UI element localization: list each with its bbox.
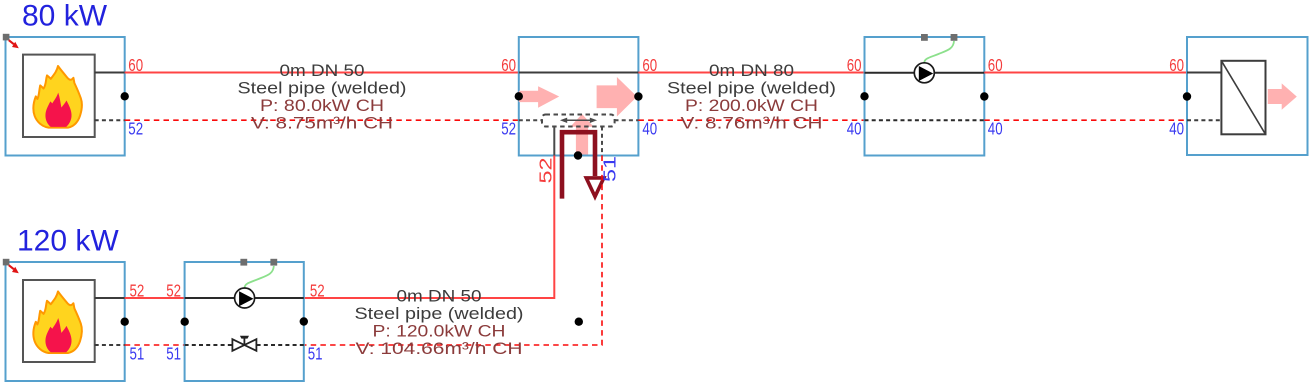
pump P1 handle square 2 (951, 34, 958, 41)
boiler B1 supply stub (95, 72, 125, 74)
boiler B2 corner arrow (9, 265, 19, 273)
node dot pump P2 right (300, 317, 308, 325)
pump P2 box (185, 262, 304, 381)
pipe run3 return wire (984, 119, 1187, 121)
consumer box (1187, 37, 1308, 155)
svg-text:V: 104.66m³/h CH: V: 104.66m³/h CH (356, 339, 523, 358)
boiler B2 supply stub (95, 297, 125, 299)
hydraulic separator box (519, 37, 639, 156)
pump P1 control curve (924, 41, 954, 63)
pump P1 handle square 1 (921, 34, 928, 41)
node dot separator left (515, 92, 523, 100)
boiler B2 flame outer (33, 291, 82, 353)
svg-text:51: 51 (308, 343, 323, 363)
svg-text:52: 52 (128, 118, 143, 138)
pipe seg B2-P2 return wire (125, 344, 185, 346)
pipe run1 supply wire (125, 72, 519, 74)
maroon flow direction arrow (562, 132, 604, 198)
svg-text:0m DN 50: 0m DN 50 (280, 61, 365, 80)
pump P1 rotor triangle (919, 66, 933, 81)
pump P1 circle (914, 63, 934, 83)
node dot pump P1 left (860, 92, 868, 100)
heat exchanger body (1221, 61, 1265, 135)
svg-text:V: 8.76m³/h CH: V: 8.76m³/h CH (681, 114, 823, 133)
pump P2 handle square 1 (240, 259, 247, 266)
pipe run4 text block (355, 287, 524, 359)
consumer flow arrow (1268, 83, 1297, 109)
svg-text:51: 51 (600, 156, 620, 182)
node dot boiler B2 outlet (121, 318, 129, 326)
boiler B2 return stub (95, 344, 125, 346)
valve V1 stem (243, 338, 245, 345)
svg-text:52: 52 (535, 158, 555, 184)
flow arrow big out (597, 77, 637, 117)
svg-text:52: 52 (310, 281, 325, 301)
svg-text:51: 51 (166, 343, 181, 363)
pipe run2 text block (667, 61, 836, 133)
consumer supply stub (1187, 72, 1221, 74)
boiler B1 flame outer (33, 66, 82, 128)
separator return wire internal left (519, 119, 542, 121)
pipe seg B2-P2 supply wire (125, 297, 185, 299)
svg-text:60: 60 (128, 55, 143, 75)
svg-text:40: 40 (847, 118, 862, 138)
flow arrow small in (519, 86, 559, 108)
svg-text:52: 52 (166, 281, 181, 301)
node dot pump P2 left (181, 318, 189, 326)
boiler B2 corner handle (3, 259, 10, 266)
svg-text:52: 52 (130, 281, 145, 301)
svg-text:120 kW: 120 kW (17, 225, 119, 258)
pump P2 return wire internal (185, 344, 304, 346)
riser return wire (304, 156, 602, 346)
pipe run2 return wire (638, 119, 864, 121)
svg-text:Steel pipe (welded): Steel pipe (welded) (238, 79, 407, 98)
svg-text:0m DN 80: 0m DN 80 (709, 61, 794, 80)
svg-text:60: 60 (988, 55, 1003, 75)
header arrow right head (590, 118, 597, 123)
pump P2 control curve (245, 266, 274, 288)
svg-text:52: 52 (501, 118, 516, 138)
node dot consumer left (1183, 92, 1191, 100)
node dot run4 mid (575, 318, 583, 326)
separator header symbol (542, 115, 615, 127)
svg-text:Steel pipe (welded): Steel pipe (welded) (667, 79, 836, 98)
pipe run1 return wire (125, 119, 519, 121)
boiler B2 body (23, 280, 95, 362)
separator bottom supply stub (553, 127, 555, 156)
pump P2 supply wire internal (185, 297, 304, 299)
svg-text:V: 8.75m³/h CH: V: 8.75m³/h CH (251, 114, 393, 133)
svg-text:40: 40 (1169, 118, 1184, 138)
svg-text:P: 120.0kW CH: P: 120.0kW CH (373, 322, 506, 341)
svg-text:60: 60 (501, 55, 516, 75)
consumer return stub (1187, 119, 1221, 121)
pump P2 rotor triangle (239, 291, 253, 306)
svg-text:P: 80.0kW CH: P: 80.0kW CH (260, 96, 384, 115)
boiler B1 flame inner (45, 93, 71, 127)
flow arrow up (570, 114, 593, 155)
pump P2 handle square 2 (270, 259, 277, 266)
valve V1 body (232, 339, 256, 351)
node dot separator right (634, 92, 642, 100)
boiler B1 corner arrow (9, 40, 19, 48)
pipe run1 text block (238, 61, 407, 133)
separator return wire internal right (615, 119, 639, 121)
valve V1 handle (240, 336, 249, 339)
boiler B2 flame inner (45, 318, 71, 352)
svg-text:40: 40 (642, 118, 657, 138)
boiler B1 body (23, 55, 95, 137)
pipe run2 supply wire (638, 72, 864, 74)
svg-text:0m DN 50: 0m DN 50 (397, 287, 482, 306)
svg-text:60: 60 (1169, 55, 1184, 75)
boiler B2 box (6, 262, 125, 381)
header arrow left head (560, 118, 567, 123)
boiler B1 return stub (95, 119, 125, 121)
separator bottom return stub (601, 127, 603, 156)
pump P2 circle (235, 288, 255, 308)
node dot boiler B1 outlet (121, 92, 129, 100)
pump P1 box (865, 37, 985, 156)
svg-text:Steel pipe (welded): Steel pipe (welded) (355, 304, 524, 323)
boiler B1 corner handle (3, 34, 10, 41)
svg-text:60: 60 (642, 55, 657, 75)
riser supply wire (304, 156, 555, 299)
boiler B1 box (6, 37, 125, 156)
svg-text:80 kW: 80 kW (22, 0, 108, 32)
pipe run3 supply wire (984, 72, 1187, 74)
svg-text:51: 51 (130, 343, 145, 363)
node dot pump P1 right (980, 92, 988, 100)
node dot separator bottom (574, 151, 582, 159)
heat exchanger diagonal (1221, 61, 1265, 135)
separator supply wire internal (519, 72, 639, 74)
pump P1 supply wire internal (865, 72, 985, 74)
header arrow line (566, 119, 590, 121)
svg-text:60: 60 (847, 55, 862, 75)
svg-text:P: 200.0kW CH: P: 200.0kW CH (685, 96, 818, 115)
pump P1 return wire internal (865, 119, 985, 121)
svg-text:40: 40 (988, 118, 1003, 138)
